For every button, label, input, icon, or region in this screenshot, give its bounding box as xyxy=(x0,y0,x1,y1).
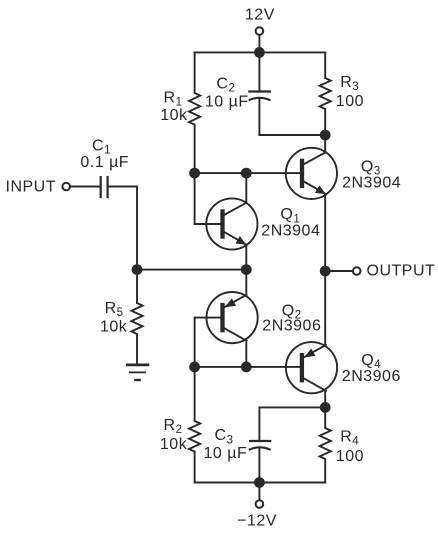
svg-text:2N3906: 2N3906 xyxy=(342,368,401,385)
wire lower base row xyxy=(195,366,302,368)
wire top rail xyxy=(195,51,326,53)
label Q3 xyxy=(361,158,381,177)
svg-text:0.1 µF: 0.1 µF xyxy=(80,154,129,171)
label Q1 type 2N3904 xyxy=(261,222,320,239)
label R2 xyxy=(164,417,183,436)
label R4 value 100 xyxy=(336,448,364,465)
wire bottom rail to -12V terminal xyxy=(258,483,260,500)
wire mid row xyxy=(137,269,246,271)
wire C2 to R3 node xyxy=(259,134,325,136)
ground xyxy=(126,365,149,380)
svg-text:INPUT: INPUT xyxy=(6,178,57,195)
wire mid node to Q2 emitter xyxy=(245,270,247,295)
wire R2 to bottom rail xyxy=(194,452,196,483)
svg-text:10 µF: 10 µF xyxy=(204,445,248,462)
wire Q2 collector to lower node xyxy=(245,341,247,367)
label C2 value 10 uF xyxy=(205,94,249,111)
node Q2 collector junction xyxy=(241,362,252,373)
12V label xyxy=(245,7,275,24)
label OUTPUT xyxy=(367,263,436,280)
capacitor C3 xyxy=(249,441,271,450)
wire R4 to bottom rail xyxy=(324,459,326,483)
-12V terminal xyxy=(256,500,264,508)
label Q4 xyxy=(361,352,381,371)
node Q1 collector junction xyxy=(241,168,252,179)
resistor R2 xyxy=(189,421,200,452)
wire Q3 collector to node xyxy=(324,135,326,152)
wire top rail to R3 xyxy=(324,52,326,78)
svg-text:12V: 12V xyxy=(245,7,275,24)
node Q4 collector junction xyxy=(320,402,331,413)
wire R5 to ground xyxy=(136,334,138,364)
wire input to C1 xyxy=(71,186,100,188)
wire R3 to node xyxy=(324,109,326,135)
wire bottom rail xyxy=(195,482,326,484)
capacitor C2 bottom lead xyxy=(258,99,260,135)
label R3 xyxy=(340,74,359,93)
svg-text:R5: R5 xyxy=(105,300,124,319)
svg-text:10k: 10k xyxy=(100,319,128,336)
capacitor C2 xyxy=(248,92,271,101)
svg-text:R1: R1 xyxy=(164,90,183,109)
wire C3 top xyxy=(259,407,325,440)
label Q2 type 2N3906 xyxy=(262,318,321,335)
wire mid node to R5 xyxy=(136,270,138,303)
INPUT terminal xyxy=(62,183,70,191)
label C1 xyxy=(92,137,111,156)
wire Q4 collector to node xyxy=(324,391,326,408)
node top supply junction xyxy=(254,47,265,58)
wire node to Q1 base xyxy=(195,173,223,224)
svg-text:R2: R2 xyxy=(164,417,183,436)
label C2 xyxy=(216,75,235,94)
svg-text:10k: 10k xyxy=(160,107,188,124)
-12V label xyxy=(237,512,277,529)
svg-text:100: 100 xyxy=(336,448,364,465)
node R3-C2-Q3 collector xyxy=(320,130,331,141)
12V terminal xyxy=(256,27,264,35)
label C3 value 10 uF xyxy=(204,445,248,462)
label Q3 type 2N3904 xyxy=(342,175,401,192)
wire Q2 base corner xyxy=(195,318,223,367)
capacitor C3 bottom lead xyxy=(258,448,260,482)
wire 12V terminal to top rail xyxy=(258,35,260,52)
svg-text:R4: R4 xyxy=(340,428,359,447)
wire R2 down xyxy=(194,367,196,421)
svg-text:10 µF: 10 µF xyxy=(205,94,249,111)
resistor R4 xyxy=(320,428,331,459)
wire Q3 emitter to output node xyxy=(324,194,326,271)
label R4 xyxy=(340,428,359,447)
resistor R5 xyxy=(131,303,142,334)
svg-text:C3: C3 xyxy=(215,427,234,446)
svg-text:−12V: −12V xyxy=(237,512,277,529)
capacitor C2 top lead xyxy=(258,52,260,90)
wire R4 down xyxy=(324,407,326,428)
wire C1 to corner xyxy=(109,186,137,188)
capacitor C1 xyxy=(101,176,108,198)
wire Q4 emitter to output node xyxy=(324,271,326,345)
wire top rail to R1 xyxy=(194,52,196,93)
wire corner down to mid node xyxy=(136,187,138,270)
wire output node to OUTPUT terminal xyxy=(325,270,352,272)
svg-text:2N3904: 2N3904 xyxy=(261,222,320,239)
svg-text:2N3904: 2N3904 xyxy=(342,175,401,192)
label C1 value 0.1 uF xyxy=(80,154,129,171)
resistor R3 xyxy=(320,78,331,109)
node R1 base junction xyxy=(189,168,200,179)
node bottom supply junction xyxy=(254,477,265,488)
node output junction xyxy=(320,266,331,277)
svg-text:2N3906: 2N3906 xyxy=(262,318,321,335)
wire Q1 emitter to mid node xyxy=(245,245,247,270)
wire R1 to node xyxy=(194,125,196,173)
label Q2 xyxy=(282,302,302,321)
label Q4 type 2N3906 xyxy=(342,368,401,385)
node Q1-Q2 emitter junction xyxy=(241,264,252,275)
label R2 value 10k xyxy=(160,436,188,453)
wire upper base row xyxy=(195,172,302,174)
node input-R5 junction xyxy=(132,264,143,275)
svg-text:R3: R3 xyxy=(340,74,359,93)
node R2 junction xyxy=(189,362,200,373)
svg-text:100: 100 xyxy=(336,93,364,110)
wire Q1 collector to node xyxy=(245,173,247,203)
label R1 xyxy=(164,90,183,109)
label R3 value 100 xyxy=(336,93,364,110)
label C3 xyxy=(215,427,234,446)
svg-text:C2: C2 xyxy=(216,75,235,94)
transistor Q3 xyxy=(286,148,337,199)
label INPUT xyxy=(6,178,57,195)
transistor Q2 xyxy=(207,292,258,343)
svg-text:OUTPUT: OUTPUT xyxy=(367,263,436,280)
transistor Q1 xyxy=(206,198,257,249)
label Q1 xyxy=(280,206,300,225)
label R1 value 10k xyxy=(160,107,188,124)
OUTPUT terminal xyxy=(353,267,361,275)
label R5 value 10k xyxy=(100,319,128,336)
transistor Q4 xyxy=(286,342,337,393)
resistor R1 xyxy=(189,93,200,125)
svg-text:10k: 10k xyxy=(160,436,188,453)
label R5 xyxy=(105,300,124,319)
